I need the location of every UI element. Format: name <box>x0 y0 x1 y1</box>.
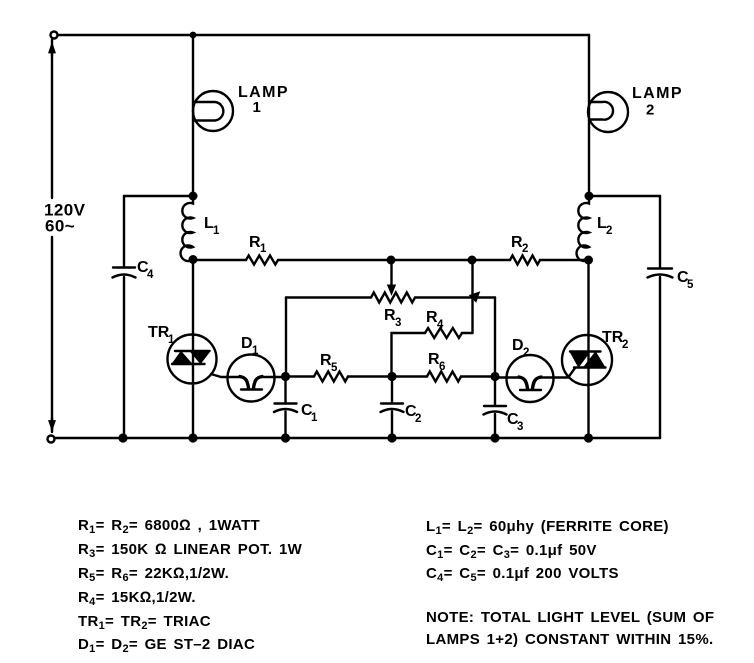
svg-text:3: 3 <box>517 421 523 433</box>
svg-text:1: 1 <box>260 243 267 255</box>
wire left vertical lower <box>51 237 53 432</box>
capacitor C1 <box>274 377 318 439</box>
node junction bottom C3 <box>490 433 499 442</box>
svg-text:LAMP: LAMP <box>632 85 683 102</box>
capacitor C2 <box>381 377 422 439</box>
svg-text:C4= C5= 0.1μf 200 VOLTS: C4= C5= 0.1μf 200 VOLTS <box>426 565 619 584</box>
svg-text:C1= C2= C3= 0.1μf 50V: C1= C2= C3= 0.1μf 50V <box>426 542 597 561</box>
note text <box>426 609 714 648</box>
triac TR2 <box>562 260 628 438</box>
node junction mid-left <box>387 256 396 265</box>
svg-text:2: 2 <box>523 347 529 359</box>
resistor R6 <box>392 351 495 382</box>
wire R3 right drop <box>494 298 496 377</box>
svg-text:D1= D2= GE ST–2 DIAC: D1= D2= GE ST–2 DIAC <box>78 636 255 655</box>
node junction L1 top <box>189 192 198 201</box>
svg-text:D: D <box>241 335 253 352</box>
node junction R6 right <box>490 372 499 381</box>
svg-text:LAMP: LAMP <box>238 84 289 101</box>
svg-text:1: 1 <box>252 345 259 357</box>
svg-text:1: 1 <box>213 225 220 237</box>
node junction mid-right <box>468 256 477 265</box>
diac D2 <box>495 337 569 402</box>
resistor R1 <box>193 234 391 265</box>
svg-text:2: 2 <box>522 243 528 255</box>
node junction L1 bottom <box>189 255 198 264</box>
svg-text:5: 5 <box>687 279 694 291</box>
svg-text:4: 4 <box>437 319 444 331</box>
svg-text:TR: TR <box>148 324 170 341</box>
lamp LAMP1 <box>193 84 289 131</box>
potentiometer R3 wiper arrow <box>388 260 396 295</box>
svg-text:R3= 150K Ω LINEAR POT. 1W: R3= 150K Ω LINEAR POT. 1W <box>78 541 303 560</box>
capacitor C3 <box>484 377 524 439</box>
node junction top lamp1 <box>190 32 197 39</box>
potentiometer R3 <box>286 293 495 330</box>
node junction R5 left <box>281 372 290 381</box>
svg-text:60~: 60~ <box>45 217 75 236</box>
node junction bottom TR2 <box>584 433 593 442</box>
node 120V label <box>44 201 86 236</box>
svg-text:3: 3 <box>395 317 401 329</box>
wire bottom horizontal <box>55 437 660 439</box>
terminal bottom-left <box>48 418 56 443</box>
capacitor C4 <box>113 196 191 438</box>
node arrow on R3 lead <box>470 292 480 302</box>
capacitor C5 <box>589 196 694 438</box>
node junction R5/R6 <box>387 372 396 381</box>
node junction bottom TR1 <box>188 433 197 442</box>
svg-text:TR: TR <box>602 329 624 346</box>
svg-text:1: 1 <box>168 334 175 346</box>
lamp LAMP2 <box>588 85 683 132</box>
wire left vertical upper <box>51 54 53 198</box>
wire lamp2 branch vertical <box>588 35 590 196</box>
wire lamp1 branch vertical <box>192 35 194 196</box>
svg-text:1: 1 <box>311 412 318 424</box>
svg-text:2: 2 <box>415 413 421 425</box>
svg-text:D: D <box>512 337 524 354</box>
svg-text:6: 6 <box>439 361 445 373</box>
inductor L1 <box>181 196 220 261</box>
svg-text:L1= L2= 60μhy (FERRITE CORE): L1= L2= 60μhy (FERRITE CORE) <box>426 518 669 537</box>
resistor R2 <box>472 234 588 265</box>
wire junction mid-right drop to R4 <box>471 260 473 333</box>
resistor R4 <box>392 309 473 377</box>
parts list right <box>426 518 669 584</box>
inductor L2 <box>577 196 613 261</box>
svg-text:R5= R6= 22KΩ,1/2W.: R5= R6= 22KΩ,1/2W. <box>78 565 229 584</box>
wire R3 left drop <box>285 298 287 377</box>
svg-text:5: 5 <box>331 362 338 374</box>
svg-text:2: 2 <box>622 339 628 351</box>
node junction L2 bottom <box>584 256 593 265</box>
node junction bottom C1 <box>281 433 290 442</box>
svg-text:NOTE: TOTAL LIGHT LEVEL (SUM O: NOTE: TOTAL LIGHT LEVEL (SUM OF <box>426 609 714 626</box>
svg-text:2: 2 <box>606 225 612 237</box>
terminal top-left <box>49 32 58 57</box>
parts list left <box>78 517 303 655</box>
svg-text:2: 2 <box>646 102 654 119</box>
svg-text:LAMPS 1+2) CONSTANT WITHIN 15%: LAMPS 1+2) CONSTANT WITHIN 15%. <box>426 631 713 648</box>
wire top horizontal <box>58 34 589 36</box>
triac TR1 <box>148 260 221 439</box>
node junction bottom C4 <box>118 433 127 442</box>
svg-text:R1= R2= 6800Ω , 1WATT: R1= R2= 6800Ω , 1WATT <box>78 517 260 536</box>
node junction bottom C2 <box>387 433 396 442</box>
svg-text:1: 1 <box>253 99 261 116</box>
svg-text:4: 4 <box>147 269 154 281</box>
svg-text:TR1= TR2= TRIAC: TR1= TR2= TRIAC <box>78 613 211 632</box>
node junction L2 top <box>585 192 594 201</box>
wire mid horizontal <box>391 259 472 261</box>
resistor R5 <box>286 352 392 382</box>
diac D1 <box>221 335 286 402</box>
svg-text:R4= 15KΩ,1/2W.: R4= 15KΩ,1/2W. <box>78 589 196 608</box>
